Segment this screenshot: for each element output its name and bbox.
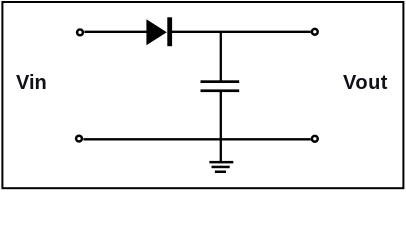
wire bottom rail: Vin- terminal to Vout- terminal [83, 138, 310, 140]
svg-text:Vout: Vout [343, 72, 388, 94]
terminal Vin+ [77, 30, 83, 36]
wire top rail: diode cathode to Vout+ terminal [172, 31, 311, 33]
terminal Vin- [76, 136, 82, 142]
diode [146, 17, 172, 46]
junction: diode cathode / capacitor / Vout node [220, 31, 222, 82]
terminal Vout- [312, 136, 318, 142]
terminal Vout+ [312, 29, 318, 35]
wire: capacitor bottom plate to ground [220, 92, 222, 162]
wire top rail: Vin+ terminal to diode anode [84, 31, 147, 33]
svg-text:Vin: Vin [16, 72, 47, 94]
ground [209, 161, 233, 173]
capacitor [201, 80, 240, 92]
